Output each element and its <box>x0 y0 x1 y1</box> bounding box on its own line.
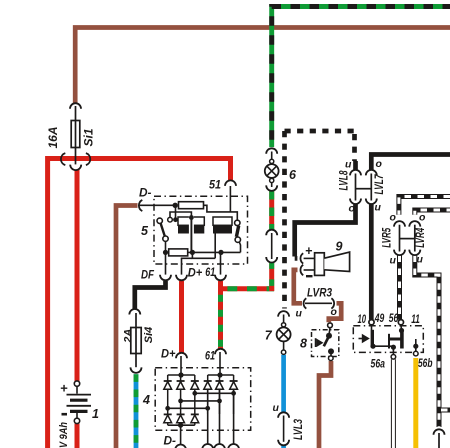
svg-text:o: o <box>349 203 356 215</box>
svg-text:49: 49 <box>374 311 384 325</box>
svg-text:D-: D- <box>139 186 152 200</box>
svg-text:56a: 56a <box>371 357 386 371</box>
svg-text:Si1: Si1 <box>82 128 96 146</box>
svg-text:10: 10 <box>358 312 367 326</box>
svg-text:u: u <box>345 159 352 171</box>
svg-text:LVR5: LVR5 <box>382 227 394 247</box>
svg-text:u: u <box>273 402 280 414</box>
svg-text:LVL7: LVL7 <box>374 174 386 194</box>
svg-text:51: 51 <box>209 178 221 192</box>
svg-text:o: o <box>419 211 426 223</box>
svg-text:61: 61 <box>205 349 215 363</box>
svg-text:LVR4: LVR4 <box>415 227 427 247</box>
svg-text:u: u <box>375 202 382 214</box>
svg-text:6: 6 <box>289 168 297 182</box>
svg-text:u: u <box>417 254 424 266</box>
svg-text:56: 56 <box>389 311 399 325</box>
svg-text:9: 9 <box>336 239 343 253</box>
svg-text:5: 5 <box>141 224 149 238</box>
svg-text:7: 7 <box>265 329 273 343</box>
svg-text:61: 61 <box>205 265 215 279</box>
svg-text:DF: DF <box>141 268 155 282</box>
svg-text:11: 11 <box>411 312 420 326</box>
svg-text:D+: D+ <box>161 347 176 361</box>
svg-text:+: + <box>60 381 68 396</box>
svg-text:D+: D+ <box>188 266 203 280</box>
svg-text:1: 1 <box>92 407 99 421</box>
svg-text:u: u <box>390 255 397 267</box>
svg-text:D-: D- <box>164 434 177 448</box>
svg-text:+: + <box>305 244 313 258</box>
svg-text:2A: 2A <box>123 329 135 344</box>
svg-text:u: u <box>296 308 303 320</box>
svg-text:8: 8 <box>300 337 307 351</box>
svg-text:4: 4 <box>142 393 150 407</box>
svg-text:LVL3: LVL3 <box>293 419 305 440</box>
svg-text:o: o <box>331 306 338 318</box>
svg-text:16A: 16A <box>46 126 60 148</box>
svg-text:56b: 56b <box>418 356 433 370</box>
svg-text:o: o <box>376 158 383 170</box>
svg-text:Si4: Si4 <box>143 327 155 344</box>
svg-text:LVL8: LVL8 <box>339 170 351 190</box>
svg-text:LVR3: LVR3 <box>307 286 332 300</box>
svg-text:V 9Ah: V 9Ah <box>58 422 70 448</box>
